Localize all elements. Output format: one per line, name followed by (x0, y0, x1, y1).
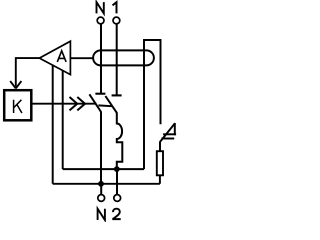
junction dot J2 (left conductor / supply line) (98, 181, 104, 187)
node N2 label (98, 209, 121, 220)
relay K (box) (4, 90, 31, 120)
linkage link between blades (98, 104, 111, 107)
arrowhead into relay K (10, 81, 21, 88)
test button blade (160, 123, 175, 142)
wire: amplifier output feedback to relay (16, 58, 40, 87)
junction dot J1 (right conductor / supply line) (114, 166, 120, 172)
linkage chevron 2 (77, 97, 85, 110)
node N1 label (97, 2, 117, 13)
wire: supply drop from amplifier inner (62, 70, 64, 169)
terminal R1 (top right circle) (113, 17, 120, 24)
label K (14, 100, 22, 113)
wire: left conductor from terminal down to left contact (100, 24, 102, 93)
wire: right pole with hop and jog down to junction (117, 112, 123, 169)
terminal L1 (top left circle) (97, 17, 104, 24)
wire: test loop through toroid (144, 40, 161, 169)
wire: toroid secondary to amplifier input (70, 57, 93, 59)
left switch blade (89, 94, 101, 112)
wire: blade to resistor (159, 142, 161, 152)
test button actuator stem (174, 123, 176, 135)
wire: right conductor to bottom terminal (116, 169, 118, 195)
label A (57, 51, 66, 62)
wire: left pole down to junction (100, 112, 102, 184)
left fixed contact T-bar (95, 93, 105, 95)
terminal L2 (bottom left circle) (98, 195, 105, 202)
right fixed contact T-bar (112, 94, 122, 96)
wire: left conductor to bottom terminal (100, 184, 102, 195)
wire: amplifier supply line upper (to J1 and test loop) (63, 168, 144, 170)
linkage chevron 1 (70, 97, 78, 110)
terminal R2 (bottom right circle) (114, 195, 121, 202)
wire: right conductor from terminal down to right contact (116, 24, 118, 95)
wire: amplifier supply line lower (to J2 and resistor) (53, 183, 160, 185)
right switch blade (105, 96, 116, 113)
resistor R (test resistor) (157, 151, 163, 175)
test button pad bar 2 (161, 138, 174, 140)
op-amp A (amplifier triangle) (39, 41, 70, 74)
wire: supply drop from amplifier outer (52, 65, 54, 184)
mechanical linkage from K to switch (31, 103, 96, 105)
wire: resistor to lower supply line (159, 175, 161, 184)
current transformer core (toroid, stadium shape) (93, 50, 154, 65)
test button pad bar 1 (163, 133, 176, 135)
